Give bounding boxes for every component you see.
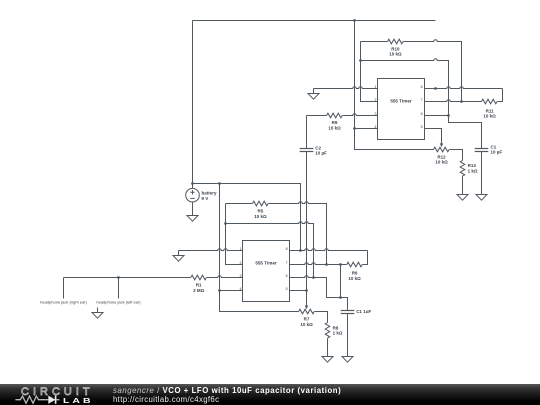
svg-text:10 kΩ: 10 kΩ: [483, 114, 496, 119]
svg-text:R9: R9: [332, 120, 338, 125]
potentiometer R7 10k: [299, 309, 315, 314]
node pin7 branch to cap: [339, 263, 342, 266]
op-amp U1 555 Timer (lower): [243, 241, 290, 302]
ground R13: [457, 195, 468, 201]
resistor R8 1k: [325, 323, 330, 339]
svg-text:7: 7: [286, 261, 288, 265]
svg-text:headphone jack (left ear): headphone jack (left ear): [96, 300, 141, 305]
svg-text:9 V: 9 V: [202, 196, 209, 201]
svg-text:R10: R10: [391, 46, 400, 51]
ground lower pin1: [173, 251, 184, 262]
svg-text:R1: R1: [196, 283, 202, 288]
node branch joins pin6 elbow: [339, 296, 342, 299]
ground battery: [187, 202, 198, 221]
svg-text:C2: C2: [315, 145, 321, 150]
svg-text:C1: C1: [491, 144, 497, 149]
ground headphone: [92, 308, 103, 319]
svg-text:C1 1uF: C1 1uF: [356, 309, 371, 314]
wire upper pin1 row: [314, 87, 378, 89]
wire headphone jack stub right-ear: [63, 278, 65, 299]
wire lower pin2/6 tie line: [226, 222, 314, 278]
wire lower pin7 row: [290, 263, 347, 265]
node R5 left branch: [224, 222, 227, 225]
svg-text:8: 8: [421, 85, 423, 89]
node upper pin8 VCC: [434, 87, 437, 90]
ground upper pin1: [308, 89, 319, 100]
wire headphone jack stub left-ear: [118, 278, 120, 299]
resistor R13 1k: [460, 161, 465, 177]
svg-text:5: 5: [421, 125, 423, 129]
svg-text:6: 6: [421, 112, 423, 116]
wiper arrow R7: [305, 306, 309, 310]
wire upper pin4 row: [355, 128, 378, 130]
svg-text:10 kΩ: 10 kΩ: [389, 52, 402, 57]
node supply-battery junction: [191, 182, 194, 185]
svg-text:10 kΩ: 10 kΩ: [435, 160, 448, 165]
wire lower pin5 row: [290, 290, 307, 292]
wire R5 left to pin2: [226, 204, 243, 265]
wire upper pin5 to R12 wiper: [425, 129, 442, 144]
wire upper pin7 row: [425, 100, 482, 102]
wire upper pin6 row: [425, 115, 449, 117]
capacitor C1 10uF (upper): [475, 148, 489, 150]
svg-text:5: 5: [286, 287, 288, 291]
wire pin7 branch down: [340, 265, 342, 298]
svg-text:555 Timer: 555 Timer: [255, 261, 277, 266]
wire lower pin4 row: [220, 290, 243, 292]
svg-text:headphone jack (right ear): headphone jack (right ear): [40, 300, 87, 305]
svg-text:1 kΩ: 1 kΩ: [333, 331, 343, 336]
node upper rail branch: [353, 19, 356, 22]
svg-text:R13: R13: [468, 163, 477, 168]
op-amp U2 555 Timer (upper): [378, 79, 425, 140]
node lower pin4 junction: [218, 289, 221, 292]
wire upper pin8 row: [425, 87, 503, 89]
wire battery feed to lower circuit: [193, 184, 301, 251]
svg-text:10 kΩ: 10 kΩ: [328, 125, 341, 130]
ground R8: [322, 357, 333, 363]
svg-text:R8: R8: [333, 325, 339, 330]
svg-text:8: 8: [286, 247, 288, 251]
svg-text:R7: R7: [304, 317, 310, 322]
svg-text:R11: R11: [486, 108, 495, 113]
node tie to pin6 lower: [312, 276, 315, 279]
svg-text:10 kΩ: 10 kΩ: [348, 276, 361, 281]
wire lower pin8 row: [290, 249, 368, 251]
capacitor C1 1uF (lower): [341, 310, 355, 312]
svg-text:555 Timer: 555 Timer: [390, 99, 412, 104]
node battery feed branch: [218, 182, 221, 185]
node lower pin8 VCC: [299, 249, 302, 252]
node R10 right to pin7: [460, 100, 463, 103]
svg-text:R5: R5: [258, 208, 264, 213]
resistor R1 2M: [64, 277, 191, 279]
svg-text:1 kΩ: 1 kΩ: [468, 169, 478, 174]
node headphone jack (left ear): [117, 276, 120, 279]
svg-text:10 kΩ: 10 kΩ: [300, 322, 313, 327]
wire lower VCC drop to pin4 and R7: [220, 184, 299, 312]
wire upper VCC drop to pin4 and R12: [355, 21, 434, 150]
svg-text:10 µF: 10 µF: [491, 150, 503, 155]
wire top supply rail: [193, 20, 436, 22]
resistor R10 10k: [361, 41, 388, 43]
resistor R11 10k: [482, 99, 498, 104]
node tie to pin6: [447, 114, 450, 117]
svg-text:battery: battery: [202, 191, 218, 196]
node upper pin4 junction: [353, 127, 356, 130]
wire lower pin6 row to C1: [290, 276, 348, 311]
wire R10 left to pin2: [361, 42, 378, 102]
svg-text:10 µF: 10 µF: [315, 151, 327, 156]
node R5 right to pin7: [325, 263, 328, 266]
potentiometer R12 10k: [434, 147, 450, 152]
ground C1 upper: [476, 195, 487, 201]
svg-text:R12: R12: [437, 154, 446, 159]
resistor R6 10k: [347, 262, 363, 267]
svg-text:10 kΩ: 10 kΩ: [254, 214, 267, 219]
ground C1 lower: [342, 357, 353, 363]
svg-text:7: 7: [421, 98, 423, 102]
svg-text:6: 6: [286, 274, 288, 278]
node pin5 wiper junction: [305, 289, 308, 292]
svg-text:R6: R6: [352, 271, 358, 276]
battery V1 9V: [192, 21, 194, 189]
wire lower pin1 row: [179, 249, 243, 251]
resistor R9 10k: [307, 115, 327, 117]
resistor R5 10k: [226, 203, 253, 205]
wire upper pin2/6 tie line: [361, 59, 482, 149]
svg-text:2 MΩ: 2 MΩ: [193, 288, 205, 293]
capacitor C2 10uF: [306, 116, 308, 149]
node R10 left branch: [359, 59, 362, 62]
